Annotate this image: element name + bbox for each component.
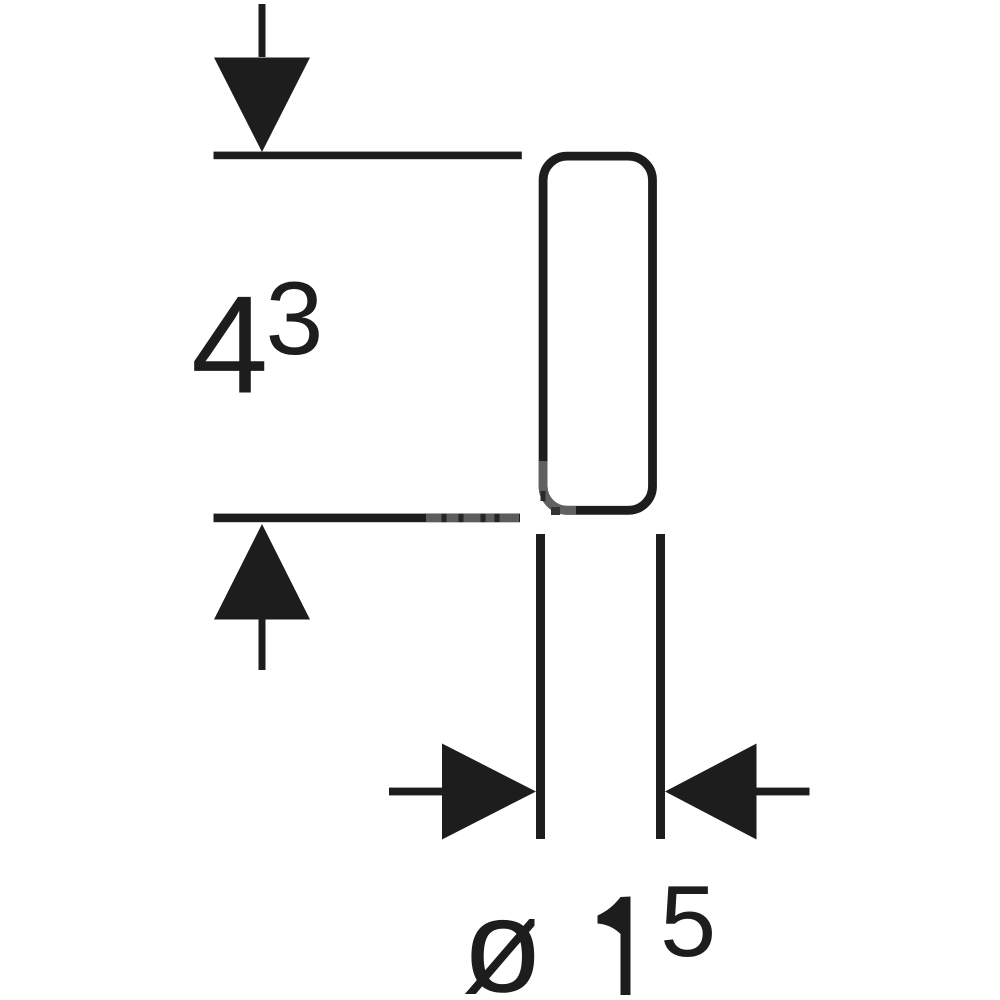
svg-text:ø: ø <box>462 873 543 1000</box>
watermark letter gaps (dark notches) <box>442 514 447 522</box>
dimension tail top <box>259 4 266 57</box>
dimension arrow up <box>214 524 310 620</box>
diameter value 1 <box>598 897 631 996</box>
watermark dark specks in corner <box>541 491 546 501</box>
dimension arrow down <box>214 58 310 153</box>
gasket outline (rounded rectangle) <box>543 156 652 510</box>
watermark gray segment on bottom dimension line <box>426 514 519 522</box>
extension line left <box>536 534 545 839</box>
watermark gray segment on gasket outline corner <box>543 461 576 510</box>
dimension tail bottom <box>259 620 266 671</box>
extension line right <box>656 534 665 839</box>
dimension arrow right (left side) <box>442 744 536 840</box>
dimension tail left <box>389 788 445 796</box>
dimension tail right <box>754 788 810 796</box>
dimension arrow left (right side) <box>665 744 757 840</box>
svg-text:3: 3 <box>266 261 324 377</box>
dimension line bottom <box>214 514 521 523</box>
svg-text:5: 5 <box>660 866 716 978</box>
dimension line top <box>214 152 522 160</box>
svg-text:4: 4 <box>191 268 268 423</box>
mask trimming diameter-symbol slash tip <box>535 908 545 926</box>
